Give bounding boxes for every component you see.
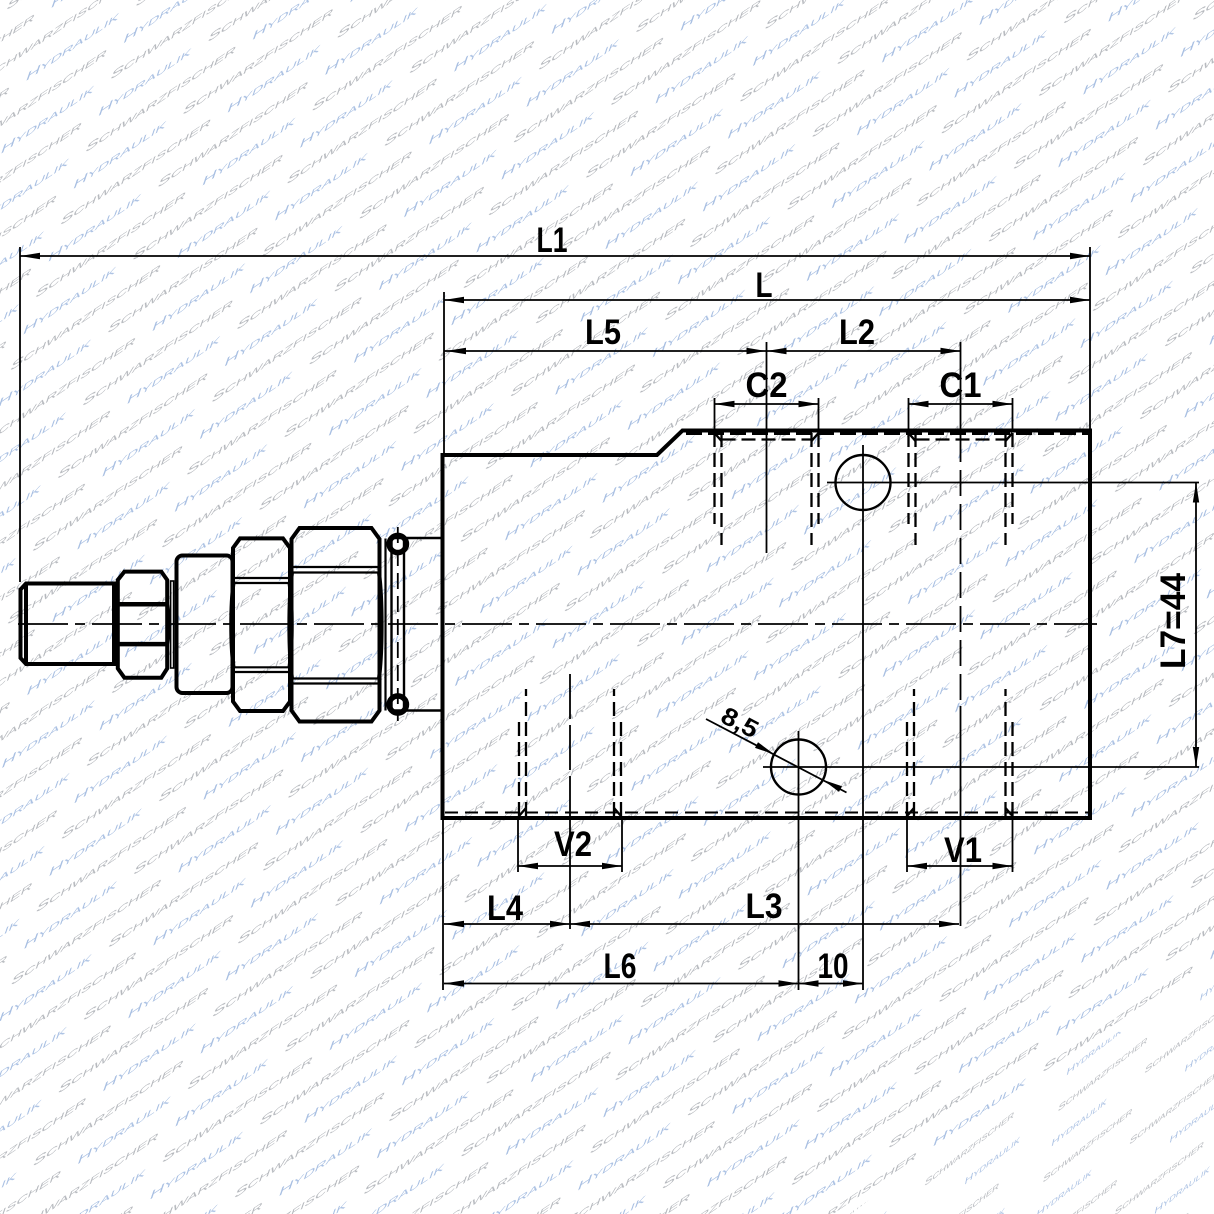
svg-text:C2: C2 — [746, 366, 788, 405]
svg-text:L5: L5 — [585, 313, 621, 352]
svg-text:L7=44: L7=44 — [1154, 572, 1193, 669]
svg-text:L3: L3 — [746, 887, 783, 926]
svg-text:L2: L2 — [839, 313, 875, 352]
svg-text:V1: V1 — [944, 831, 982, 870]
svg-text:L4: L4 — [487, 889, 523, 928]
svg-text:V2: V2 — [554, 825, 592, 864]
svg-text:L1: L1 — [537, 221, 568, 260]
svg-text:C1: C1 — [940, 366, 982, 405]
svg-text:L6: L6 — [604, 947, 637, 986]
svg-text:10: 10 — [818, 947, 849, 986]
svg-text:L: L — [756, 266, 773, 305]
